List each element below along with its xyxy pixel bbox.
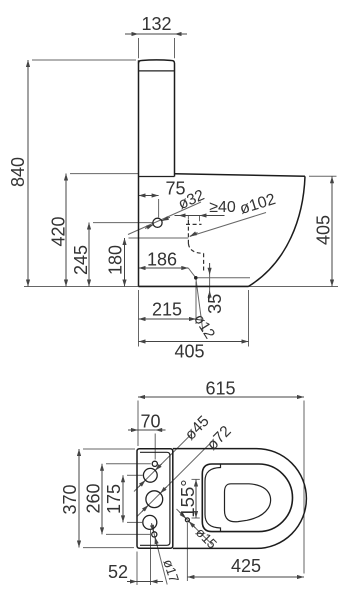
svg-text:420: 420 xyxy=(49,216,69,246)
svg-text:260: 260 xyxy=(84,483,104,513)
svg-text:175: 175 xyxy=(104,484,124,514)
svg-text:≥40: ≥40 xyxy=(209,199,236,216)
svg-text:70: 70 xyxy=(140,412,160,432)
svg-text:615: 615 xyxy=(205,379,235,399)
svg-text:215: 215 xyxy=(152,300,182,320)
svg-text:180: 180 xyxy=(106,245,126,275)
svg-text:155°: 155° xyxy=(177,479,198,517)
svg-text:245: 245 xyxy=(71,245,91,275)
svg-text:52: 52 xyxy=(108,562,128,582)
svg-text:35: 35 xyxy=(205,294,225,314)
svg-text:405: 405 xyxy=(174,342,204,362)
svg-text:840: 840 xyxy=(8,157,28,187)
svg-text:132: 132 xyxy=(141,14,171,34)
svg-text:ø17: ø17 xyxy=(160,557,181,584)
svg-text:425: 425 xyxy=(231,556,261,576)
svg-text:370: 370 xyxy=(60,484,80,514)
svg-text:ø102: ø102 xyxy=(238,191,278,218)
svg-text:ø12: ø12 xyxy=(190,311,218,342)
svg-text:186: 186 xyxy=(147,250,177,270)
svg-text:405: 405 xyxy=(314,215,334,245)
